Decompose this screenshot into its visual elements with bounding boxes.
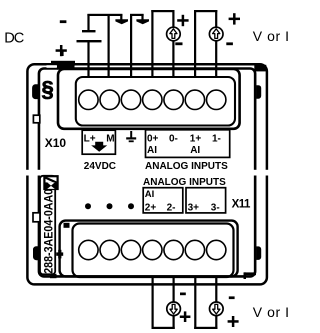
pin box 0+ 0- 1+ 1- <box>146 130 230 158</box>
ground symbol <box>126 131 136 142</box>
lower terminal cover <box>73 224 234 278</box>
upper terminal cover <box>76 77 235 126</box>
lower terminal 1 <box>79 240 98 259</box>
left notch upper <box>33 115 39 123</box>
svg-text:AI: AI <box>190 145 200 156</box>
unused terminal dot 2 <box>107 203 113 209</box>
left clip lower <box>33 246 40 260</box>
svg-text:3+: 3+ <box>188 202 200 213</box>
node source0 plus <box>177 15 188 26</box>
svg-text:L+: L+ <box>84 134 96 145</box>
lower terminal 3 <box>121 240 140 259</box>
pin box 3+ 3- <box>186 188 226 214</box>
top-left mounting tab <box>47 51 76 70</box>
svg-text:X10: X10 <box>45 136 67 150</box>
svg-text:2-: 2- <box>167 202 176 213</box>
unused terminal dot 1 <box>85 203 91 209</box>
node source2 minus <box>180 293 186 296</box>
terminal section sub-panel upper <box>58 69 240 129</box>
current source AI2 <box>167 302 181 316</box>
arrow into M terminal <box>115 14 128 24</box>
node source3 minus <box>229 296 235 299</box>
wire battery negative to top bus <box>87 14 89 31</box>
terminal section sub-panel lower <box>60 221 238 277</box>
wire drop to earth terminal <box>130 14 132 77</box>
wire top bus <box>87 14 122 16</box>
terminal 3 earth <box>121 90 140 109</box>
node source1 plus <box>229 13 240 24</box>
terminal 6 1+ <box>185 90 204 109</box>
svg-text:V or I: V or I <box>253 304 290 320</box>
svg-text:288-3AE04-0AA0: 288-3AE04-0AA0 <box>41 189 55 274</box>
wire analog source 1 loop <box>194 10 217 77</box>
wire battery positive to terminal L+ <box>87 42 89 77</box>
lower terminal 4 2+ <box>143 240 162 259</box>
lower terminal 5 2- <box>164 240 183 259</box>
pin box AI 2+ 2- <box>143 188 183 214</box>
lower terminal 7 3- <box>207 240 226 259</box>
module outer shell <box>27 64 267 284</box>
left clip upper <box>32 84 39 99</box>
module front panel <box>39 69 255 277</box>
svg-text:AI: AI <box>147 145 157 156</box>
order number panel <box>40 176 55 274</box>
node battery plus label <box>56 45 67 56</box>
terminal 7 1- <box>207 90 226 109</box>
right clip upper <box>256 85 261 99</box>
svg-text:1-: 1- <box>212 133 221 144</box>
current source AI0 <box>167 27 181 41</box>
battery B1 <box>77 30 102 42</box>
top-right latch bar <box>254 65 266 72</box>
seam between upper and lower views <box>23 170 271 176</box>
node battery minus label <box>60 20 67 23</box>
unused terminal dot 3 <box>128 203 134 209</box>
svg-text:V or I: V or I <box>253 28 290 44</box>
panel corner junction bottom-left <box>50 274 57 278</box>
terminal 1 L+ <box>79 90 98 109</box>
node source1 minus <box>226 42 233 45</box>
lower terminal 2 <box>100 240 119 259</box>
clamp icon on sub-panel edge <box>56 250 63 259</box>
wire bus segment to earth <box>130 14 144 16</box>
current source AI1 <box>209 27 223 41</box>
svg-text:M: M <box>106 134 114 145</box>
svg-text:3-: 3- <box>211 202 220 213</box>
svg-text:AI: AI <box>145 189 155 200</box>
terminal 4 0+ <box>143 90 162 109</box>
svg-text:DC: DC <box>4 30 24 46</box>
lower terminal 6 3+ <box>185 240 204 259</box>
molded clip mark lower-left <box>64 223 70 228</box>
terminal 5 0- <box>164 90 183 109</box>
svg-text:§: § <box>42 77 54 102</box>
svg-text:0-: 0- <box>169 133 178 144</box>
node source0 minus <box>175 42 182 45</box>
pin box L+ M <box>82 130 115 154</box>
arrow into earth terminal <box>136 14 149 24</box>
svg-text:ANALOG INPUTS: ANALOG INPUTS <box>143 177 226 188</box>
wire analog source 3 loop <box>194 277 217 329</box>
node source2 plus <box>180 311 191 322</box>
svg-text:0+: 0+ <box>147 133 159 144</box>
right clip lower <box>256 246 261 260</box>
svg-text:X11: X11 <box>232 198 251 210</box>
wire analog source 0 loop <box>151 10 174 77</box>
certification mark <box>44 176 57 189</box>
current source AI3 <box>210 302 224 316</box>
connector step bottom-right <box>244 272 257 279</box>
wire bus drop to terminal M <box>108 14 110 77</box>
svg-text:2+: 2+ <box>145 202 157 213</box>
node source3 plus <box>228 316 239 327</box>
svg-text:1+: 1+ <box>190 133 202 144</box>
left notch lower <box>33 213 40 222</box>
wire analog source 2 loop <box>152 277 175 329</box>
terminal 2 M <box>100 90 119 109</box>
